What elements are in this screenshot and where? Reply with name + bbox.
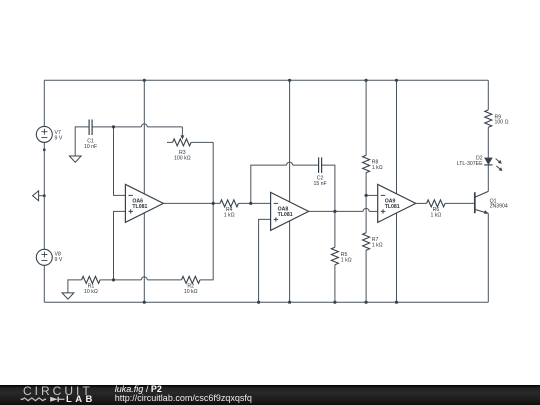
label R2 10 k — [184, 284, 198, 295]
junction bottom rail OA8 V- — [288, 301, 291, 304]
transistor Q1 — [475, 191, 489, 213]
footer url — [115, 394, 252, 403]
resistor R9 — [485, 110, 492, 127]
wire OA6 output — [163, 202, 220, 204]
op-amp OA6 — [125, 184, 163, 222]
logo diode — [50, 397, 58, 402]
wire R7 bottom lead — [365, 250, 367, 302]
wire R4 to OA8 inverting input — [239, 202, 271, 204]
ground (R1) — [62, 293, 74, 299]
label Q1 2N3904 — [490, 198, 508, 209]
wire left rail — [43, 80, 45, 302]
wire R9 top lead — [487, 80, 489, 110]
label OA6 TL081 — [132, 198, 147, 210]
junction R4 out / C2 branch — [249, 202, 252, 205]
label OA8 TL081 — [278, 206, 293, 218]
junction R8 / R7 / OA9 minus — [365, 194, 368, 197]
wire OA8 V+ / V- column — [289, 80, 291, 302]
label R8 1 k — [372, 159, 383, 170]
junction top rail at OA6 V+ — [143, 79, 146, 82]
resistor R1 — [82, 276, 100, 283]
net flag — [33, 191, 45, 201]
wire OA9 output — [416, 202, 427, 204]
capacitor C2 — [319, 157, 322, 173]
label C2 15 nF — [313, 175, 326, 186]
wire R3 wiper drop — [181, 127, 183, 137]
label R7 1 k — [372, 237, 383, 248]
label R9 100 — [495, 114, 509, 125]
wire OA6 V+ / V- column — [143, 80, 145, 302]
wire OA8 non-inverting input dropper — [259, 219, 271, 302]
label R6 1 k — [430, 207, 441, 218]
junction bottom rail OA8 plus — [257, 301, 260, 304]
wire OA9 inverting input — [366, 194, 378, 196]
footer title — [115, 385, 162, 394]
label C1 10 nF — [84, 138, 97, 149]
label R4 1 k — [224, 207, 235, 218]
label R1 10 k — [84, 284, 98, 295]
wire C1 left + ground stem — [75, 127, 89, 156]
junction below V7 — [43, 148, 46, 151]
capacitor C1 — [89, 120, 92, 136]
wire R9 to D2 — [487, 127, 489, 158]
junction bottom rail R7 — [365, 301, 368, 304]
junction R1-R2 / OA6 plus — [112, 278, 115, 281]
wire C1 right to R3 wiper (hop over OA6 V+ column) — [92, 124, 182, 127]
wire C2 right drop — [322, 165, 335, 211]
logo resistor zigzag — [21, 398, 47, 401]
wire top rail — [44, 79, 488, 81]
label OA9 TL081 — [385, 198, 400, 210]
voltage source V7 — [36, 126, 52, 142]
wire OA8 output (hop over R7 column) — [309, 208, 378, 211]
wire R3 leads — [167, 141, 213, 143]
resistor R4 — [220, 200, 238, 207]
wire OA9 V+ / V- column — [396, 80, 398, 302]
resistor R8 — [363, 155, 370, 172]
CircuitLab logo — [23, 386, 93, 396]
wire R6 to Q1 base — [445, 202, 475, 204]
resistor R5 — [331, 247, 338, 264]
wire R2 right riser to R3 — [200, 142, 213, 280]
wire bottom rail — [44, 301, 488, 303]
junction top rail at R8 — [365, 79, 368, 82]
wire R1 left + ground stem — [68, 280, 82, 293]
resistor R2 — [182, 276, 200, 283]
wire D2 to Q1 collector — [487, 165, 489, 192]
wire R5 leads — [334, 211, 336, 302]
junction net flag — [43, 194, 46, 197]
label V7 9 V — [55, 130, 63, 141]
junction bottom rail OA9 V- — [395, 301, 398, 304]
wire OA6 inverting input riser — [114, 127, 126, 195]
label R5 1 k — [341, 252, 352, 263]
wire C2 left branch (hop over OA8 V+ column) — [251, 162, 319, 203]
wire R8-R7 link — [365, 173, 367, 233]
label D2 LTL-307EE — [457, 156, 483, 167]
junction OA8 out / C2-R5 — [333, 210, 336, 213]
junction OA6 out / R3-R2 column — [212, 202, 215, 205]
junction bottom rail OA6 V- — [143, 301, 146, 304]
junction C1 / OA6 minus — [112, 125, 115, 128]
resistor R7 — [363, 233, 370, 250]
junction bottom rail R5 — [333, 301, 336, 304]
wire R8 top lead — [365, 80, 367, 155]
label V8 9 V — [55, 251, 63, 262]
resistor R3 (rheostat) — [173, 135, 191, 146]
op-amp OA9 — [378, 184, 416, 222]
ground (C1) — [69, 156, 81, 162]
wire OA6 non-inverting input dropper — [114, 211, 126, 280]
op-amp OA8 — [271, 192, 309, 230]
junction top rail at OA8 V+ — [288, 79, 291, 82]
junction top rail at OA9 V+ — [395, 79, 398, 82]
LED D2 — [484, 158, 502, 171]
wire Q1 emitter to bottom rail — [487, 214, 489, 303]
resistor R6 — [427, 200, 445, 207]
voltage source V8 — [36, 249, 52, 265]
label R3 100 k — [174, 150, 191, 161]
wire R1-R2 (hop over OA6 V- column) — [100, 277, 182, 280]
